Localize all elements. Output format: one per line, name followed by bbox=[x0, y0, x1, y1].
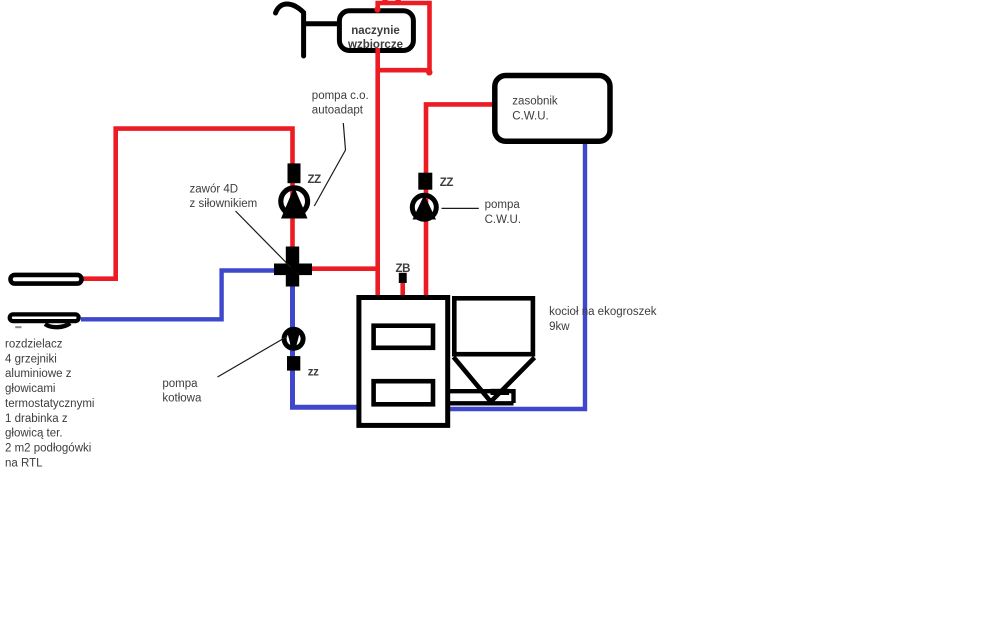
pointer to pompa kotlowa bbox=[218, 337, 288, 378]
svg-text:kotłowa: kotłowa bbox=[162, 393, 202, 405]
svg-text:głowicą ter.: głowicą ter. bbox=[5, 428, 63, 440]
red dot at vessel top entry bbox=[374, 6, 380, 12]
4-way valve zawor 4D bbox=[274, 247, 312, 287]
label rozdzielacz text block bbox=[5, 339, 94, 470]
small gray tick bbox=[15, 326, 21, 328]
svg-text:C.W.U.: C.W.U. bbox=[512, 110, 548, 122]
auger channel bbox=[450, 391, 514, 403]
svg-text:rozdzielacz: rozdzielacz bbox=[5, 339, 63, 351]
svg-text:głowicami: głowicami bbox=[5, 383, 56, 395]
wire: red loop bottom horizontal bbox=[378, 68, 430, 73]
svg-text:ZZ: ZZ bbox=[440, 177, 454, 189]
valve ZZ on CO pump line bbox=[288, 163, 301, 183]
svg-text:z siłownikiem: z siłownikiem bbox=[190, 198, 258, 210]
hot water tank (zasobnik) box bbox=[495, 76, 610, 142]
svg-text:zz: zz bbox=[308, 367, 319, 379]
boiler body bbox=[359, 298, 448, 426]
svg-text:ZZ: ZZ bbox=[308, 174, 322, 186]
svg-text:9kw: 9kw bbox=[549, 321, 570, 333]
hopper funnel right slope bbox=[490, 358, 535, 403]
svg-text:pompa: pompa bbox=[485, 199, 521, 211]
svg-text:kocioł na ekogroszek: kocioł na ekogroszek bbox=[549, 306, 657, 318]
wire: blue boiler to zasobnik return bbox=[448, 140, 585, 409]
wire: red CO supply radiator-to-cross bbox=[83, 129, 293, 279]
wire: red ZB stub bbox=[400, 281, 405, 296]
valve ZZ on CWU line bbox=[418, 173, 432, 190]
svg-text:2 m2 podłogówki: 2 m2 podłogówki bbox=[5, 442, 91, 454]
svg-text:pompa c.o.: pompa c.o. bbox=[312, 90, 369, 102]
wire: red pipe vessel top loop bbox=[378, 3, 430, 73]
pointer to zawor 4D bbox=[236, 211, 292, 268]
radiator 2 valve bump bbox=[45, 323, 70, 327]
svg-text:termostatycznymi: termostatycznymi bbox=[5, 398, 94, 410]
svg-text:zawór 4D: zawór 4D bbox=[190, 184, 239, 196]
auger vertex block bbox=[491, 389, 510, 395]
red end blob bbox=[426, 69, 432, 75]
valve zz on boiler pump line bbox=[287, 356, 300, 371]
pointer to pompa C.W.U. bbox=[442, 207, 479, 209]
wire: blue return radiator2 to cross bbox=[81, 271, 275, 320]
wire: red CWU circuit (boiler to zasobnik) bbox=[426, 104, 496, 296]
valve ZB bbox=[399, 273, 407, 283]
svg-text:pompa: pompa bbox=[162, 378, 198, 390]
wire: red cross to boiler tee bbox=[311, 266, 379, 271]
svg-text:autoadapt: autoadapt bbox=[312, 105, 364, 117]
radiator 1 bbox=[11, 275, 82, 284]
expansion vessel box bbox=[339, 11, 413, 51]
red pipe overlapping vessel bottom border bbox=[375, 48, 380, 54]
radiator 2 bbox=[10, 314, 79, 321]
hopper bin bbox=[454, 298, 533, 354]
svg-text:1 drabinka z: 1 drabinka z bbox=[5, 413, 68, 425]
hopper funnel left slope bbox=[454, 357, 492, 402]
svg-text:4 grzejniki: 4 grzejniki bbox=[5, 353, 57, 365]
pointer to pompa c.o. bbox=[314, 123, 345, 206]
wire: blue cross down to boiler return bbox=[293, 285, 362, 407]
pump P3 pompa kotlowa bbox=[284, 329, 303, 348]
svg-text:aluminiowe z: aluminiowe z bbox=[5, 368, 72, 380]
red arc bump on vessel top line bbox=[384, 0, 399, 4]
svg-text:naczynie: naczynie bbox=[351, 25, 400, 37]
wall hook bracket bbox=[276, 4, 304, 56]
svg-text:zasobnik: zasobnik bbox=[512, 95, 558, 107]
svg-text:C.W.U.: C.W.U. bbox=[485, 214, 521, 226]
boiler door lower bbox=[374, 381, 433, 404]
wire: red pipe vessel bottom to boiler bbox=[375, 49, 380, 296]
pipe stub to vessel bbox=[302, 21, 340, 26]
pump P1 pompa c.o. bbox=[281, 187, 308, 219]
boiler door upper bbox=[374, 326, 433, 348]
svg-text:na RTL: na RTL bbox=[5, 457, 43, 469]
svg-text:wzbiorcze: wzbiorcze bbox=[347, 39, 403, 51]
pump P2 pompa C.W.U. bbox=[412, 195, 436, 220]
